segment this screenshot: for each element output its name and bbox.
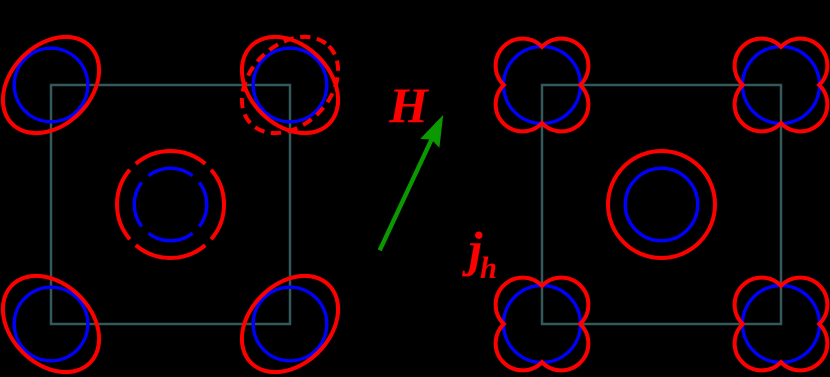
node bottom-right of left cell: blue electron pocket xyxy=(253,287,327,361)
node bottom-right of right cell: red four-petal clover xyxy=(735,278,828,371)
node top-right of left cell: solid red ellipse flipped orientation (\ tilt) xyxy=(223,18,357,152)
svg-text:h: h xyxy=(480,250,497,285)
node bottom-right of left cell: red ellipse (/ tilt) xyxy=(223,257,357,377)
centre of left cell: dashed blue circle xyxy=(134,168,206,240)
node bottom-left of left cell: red ellipse (\ tilt) xyxy=(0,257,118,377)
node top-right of right cell: red four-petal clover xyxy=(735,39,828,132)
field arrow H head xyxy=(420,115,443,148)
node top-left of left cell: red hole orbital ellipse (/ tilt) xyxy=(0,18,118,152)
centre of right cell: blue circle xyxy=(625,168,697,240)
node bottom-left of right cell: blue circle xyxy=(504,286,581,363)
centre of right cell: red circle xyxy=(608,151,715,258)
left unit-cell square xyxy=(51,85,290,324)
node bottom-left of left cell: blue electron pocket xyxy=(14,287,88,361)
field arrow H shaft xyxy=(380,139,432,251)
node top-left of right cell: blue circle xyxy=(504,47,581,124)
svg-text:H: H xyxy=(388,77,430,133)
node top-right of left cell: dashed red ellipse original orientation (/ tilt) xyxy=(223,18,357,152)
node top-right of left cell: blue electron pocket xyxy=(253,48,327,122)
node top-left of right cell: red four-petal clover xyxy=(496,39,589,132)
right unit-cell square xyxy=(542,85,781,324)
node bottom-right of right cell: blue circle xyxy=(743,286,820,363)
centre of left cell: dashed red circle xyxy=(117,151,224,258)
node top-left of left cell: blue electron pocket xyxy=(14,48,88,122)
node top-right of right cell: blue circle xyxy=(743,47,820,124)
node bottom-left of right cell: red four-petal clover xyxy=(496,278,589,371)
